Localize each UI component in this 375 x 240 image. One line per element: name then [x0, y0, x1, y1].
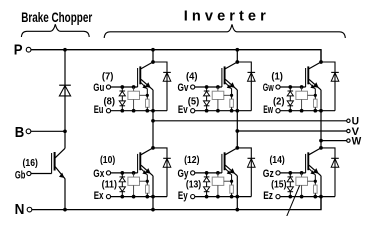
wire phase output W	[321, 140, 347, 142]
junction E-resistor top V	[230, 109, 234, 113]
resistor sense top U	[146, 95, 150, 110]
svg-text:(8): (8)	[104, 97, 116, 108]
junction collector node top W	[319, 60, 323, 64]
diode freewheel top W	[331, 71, 339, 73]
svg-text:Gx: Gx	[93, 168, 105, 180]
junction E-zener top V	[205, 109, 209, 113]
wire diode branch top V	[237, 62, 251, 111]
svg-text:(11): (11)	[102, 179, 117, 190]
junction sense node top V	[230, 94, 233, 97]
terminal V	[347, 129, 350, 132]
wire emitter line Ev	[195, 110, 251, 112]
wire diode branch top U	[153, 62, 167, 111]
leader line to RTC block bottom W	[286, 186, 299, 218]
wire chopper branch upper	[64, 50, 66, 132]
svg-text:(10): (10)	[100, 155, 115, 166]
svg-text:Gb: Gb	[15, 170, 26, 182]
wire chopper emitter to N	[64, 179, 66, 210]
wire gate lead Gu	[111, 86, 138, 88]
junction B node	[63, 129, 67, 133]
IGBT bottom z-phase	[306, 148, 321, 181]
junction collector node top V	[235, 60, 239, 64]
junction gate-RTC bottom Z	[300, 171, 304, 175]
svg-text:Gz: Gz	[263, 168, 274, 180]
junction E-resistor top U	[145, 109, 149, 113]
wire P rail	[31, 50, 321, 62]
junction E-resistor bottom Y	[230, 195, 234, 199]
junction collector node bottom Z	[319, 146, 323, 150]
junction E-leg bottom X	[151, 195, 155, 199]
RTC block bottom Z	[296, 173, 315, 197]
svg-text:(7): (7)	[102, 71, 114, 82]
wire emitter line Ex	[111, 196, 167, 198]
wire diode branch bottom Z	[321, 148, 335, 197]
svg-text:(16): (16)	[23, 158, 38, 169]
junction E-leg top V	[235, 109, 239, 113]
svg-text:Ew: Ew	[263, 104, 273, 116]
wire gate lead Gx	[111, 172, 138, 174]
svg-text:N: N	[15, 201, 25, 216]
wire collector feed leg U	[152, 50, 154, 62]
svg-text:W: W	[352, 136, 362, 148]
wire phase output U	[153, 120, 347, 122]
resistor sense bottom Z	[314, 181, 318, 196]
wire collector feed leg V	[236, 50, 238, 62]
IGBT top v-phase	[222, 62, 237, 95]
wire diode branch top W	[321, 62, 335, 111]
wire emitter to N rail X	[152, 176, 154, 210]
junction sense node top W	[314, 94, 317, 97]
junction gate-RTC top V	[216, 85, 220, 89]
svg-text:(1): (1)	[271, 71, 283, 82]
junction phase tap U	[151, 119, 155, 123]
svg-text:(14): (14)	[269, 155, 284, 166]
junction E-RTC top V	[216, 109, 220, 113]
junction N-leg2	[235, 208, 239, 212]
svg-text:Ex: Ex	[94, 190, 104, 202]
svg-text:(13): (13)	[186, 179, 201, 190]
svg-text:(4): (4)	[186, 71, 198, 82]
wire Gb gate lead	[31, 173, 51, 175]
junction phase tap V	[235, 129, 239, 133]
zener pair gate clamp top V	[204, 87, 210, 111]
svg-text:B: B	[15, 124, 25, 141]
zener pair gate clamp top U	[119, 87, 125, 111]
wire diode branch bottom Y	[237, 148, 251, 197]
junction N-chopper	[63, 208, 67, 212]
RTC block top W	[296, 87, 315, 111]
wire emitter line Ey	[195, 196, 251, 198]
svg-text:(12): (12)	[184, 155, 199, 166]
junction E-RTC top W	[300, 109, 304, 113]
junction gate-zener top W	[288, 85, 292, 89]
wire leg mid V	[236, 90, 238, 148]
IGBT top w-phase	[306, 62, 321, 95]
RTC block bottom X	[128, 173, 147, 197]
IGBT bottom y-phase	[222, 148, 237, 181]
svg-text:(5): (5)	[188, 97, 200, 108]
junction gate-RTC top U	[132, 85, 136, 89]
terminal U	[347, 119, 350, 122]
wire gate lead Gw	[280, 86, 305, 88]
wire B to chopper branch	[31, 130, 65, 132]
junction sense node bottom Y	[230, 180, 233, 183]
junction E-zener bottom X	[120, 195, 124, 199]
junction gate-zener top U	[120, 85, 124, 89]
svg-text:Gv: Gv	[178, 82, 190, 94]
junction gate-zener bottom X	[120, 171, 124, 175]
wire leg mid W	[320, 90, 322, 148]
wire gate lead Gz	[280, 172, 305, 174]
IGBT top u-phase	[138, 62, 153, 95]
wire gate lead Gy	[195, 172, 222, 174]
wire collector feed leg W	[320, 50, 322, 62]
svg-text:(2): (2)	[273, 97, 285, 108]
resistor sense top W	[314, 95, 318, 110]
junction E-zener top W	[288, 109, 292, 113]
junction E-resistor bottom Z	[313, 195, 317, 199]
junction sense node bottom Z	[314, 180, 317, 183]
IGBT Q7 brake chopper	[52, 148, 65, 179]
wire emitter line Eu	[111, 110, 167, 112]
resistor sense top V	[230, 95, 234, 110]
junction gate-zener top V	[205, 85, 209, 89]
junction E-RTC top U	[132, 109, 136, 113]
svg-text:Ez: Ez	[263, 190, 273, 202]
diode D8 brake chopper freewheel	[59, 84, 71, 86]
svg-text:Ey: Ey	[178, 190, 188, 202]
junction E-zener bottom Y	[205, 195, 209, 199]
svg-text:(15): (15)	[271, 179, 286, 190]
junction E-leg top U	[151, 109, 155, 113]
svg-text:Ev: Ev	[178, 104, 188, 116]
junction gate-RTC bottom Y	[216, 171, 220, 175]
IGBT bottom x-phase	[138, 148, 153, 181]
junction P-chopper	[63, 48, 67, 52]
junction E-resistor bottom X	[145, 195, 149, 199]
diode freewheel top U	[163, 71, 171, 73]
svg-text:Gy: Gy	[178, 168, 190, 180]
wire N rail	[32, 197, 321, 210]
zener pair gate clamp bottom X	[119, 173, 125, 197]
svg-text:Eu: Eu	[94, 104, 104, 116]
junction E-zener bottom Z	[288, 195, 292, 199]
diode freewheel top V	[248, 71, 256, 73]
junction P-leg1	[151, 48, 155, 52]
wire emitter line Ew	[280, 110, 335, 112]
junction sense node top U	[146, 94, 149, 97]
resistor sense bottom Y	[230, 181, 234, 196]
RTC block bottom Y	[212, 173, 231, 197]
junction gate-RTC top W	[300, 85, 304, 89]
junction N-leg1	[151, 208, 155, 212]
wire leg mid U	[152, 90, 154, 148]
junction collector node bottom Y	[235, 146, 239, 150]
junction E-RTC bottom X	[132, 195, 136, 199]
wire chopper collector	[64, 131, 66, 148]
svg-text:Brake Chopper: Brake Chopper	[21, 9, 92, 25]
junction E-leg bottom Z	[319, 195, 323, 199]
wire phase output V	[237, 130, 346, 132]
junction P-leg2	[235, 48, 239, 52]
brace under Inverter	[104, 24, 345, 38]
zener pair gate clamp bottom Y	[204, 173, 210, 197]
svg-text:P: P	[14, 41, 23, 58]
brace under Brake Chopper	[21, 24, 89, 37]
junction E-RTC bottom Y	[216, 195, 220, 199]
wire emitter to N rail Z	[320, 176, 322, 210]
junction phase tap W	[319, 139, 323, 143]
junction E-RTC bottom Z	[300, 195, 304, 199]
diode freewheel bottom X	[163, 157, 171, 159]
junction E-leg bottom Y	[235, 195, 239, 199]
wire diode branch bottom X	[153, 148, 167, 197]
diode freewheel bottom Z	[331, 157, 339, 159]
junction collector node bottom X	[151, 146, 155, 150]
zener pair gate clamp bottom Z	[287, 173, 293, 197]
svg-text:I n v e r t e r: I n v e r t e r	[184, 8, 266, 25]
svg-text:Gw: Gw	[263, 82, 274, 94]
junction gate-zener bottom Z	[288, 171, 292, 175]
zener pair gate clamp top W	[287, 87, 293, 111]
RTC block top U	[128, 87, 147, 111]
junction sense node bottom X	[146, 180, 149, 183]
diode freewheel bottom Y	[248, 157, 256, 159]
junction E-leg top W	[319, 109, 323, 113]
svg-text:Gu: Gu	[93, 82, 104, 94]
wire emitter to N rail Y	[236, 176, 238, 210]
wire emitter line Ez	[280, 196, 335, 198]
resistor sense bottom X	[146, 181, 150, 196]
junction gate-zener bottom Y	[205, 171, 209, 175]
terminal W	[347, 139, 350, 142]
junction gate-RTC bottom X	[132, 171, 136, 175]
junction collector node top U	[151, 60, 155, 64]
junction E-zener top U	[120, 109, 124, 113]
RTC block top V	[212, 87, 231, 111]
wire gate lead Gv	[195, 86, 222, 88]
junction E-resistor top W	[313, 109, 317, 113]
